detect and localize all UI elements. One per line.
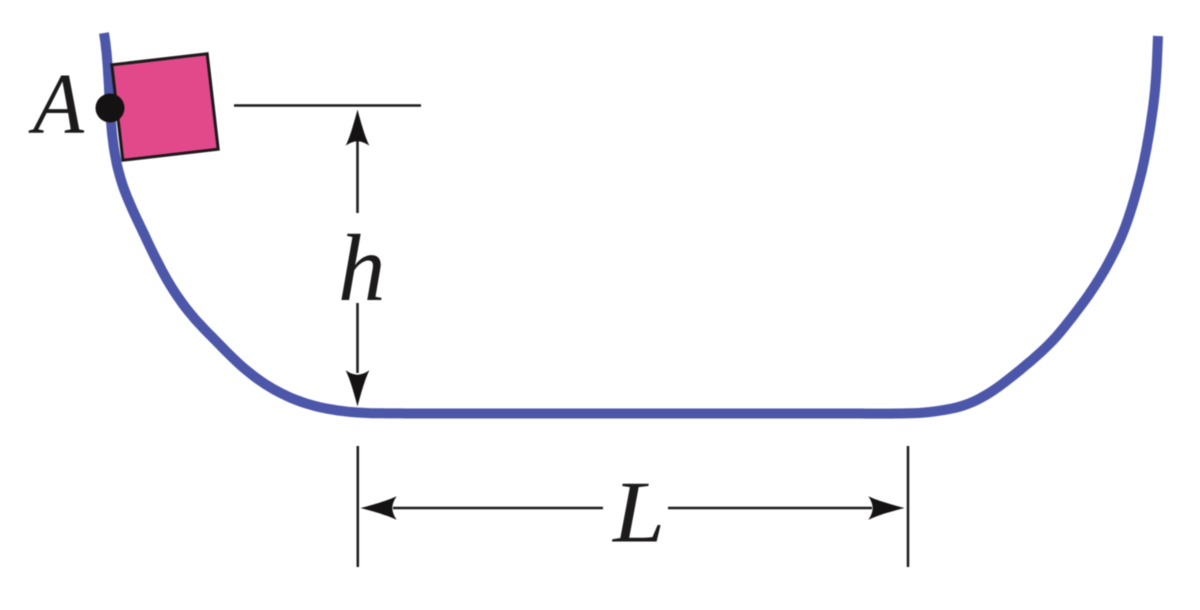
svg-text:L: L — [611, 465, 665, 562]
svg-text:h: h — [338, 215, 386, 321]
svg-text:A: A — [28, 55, 85, 152]
